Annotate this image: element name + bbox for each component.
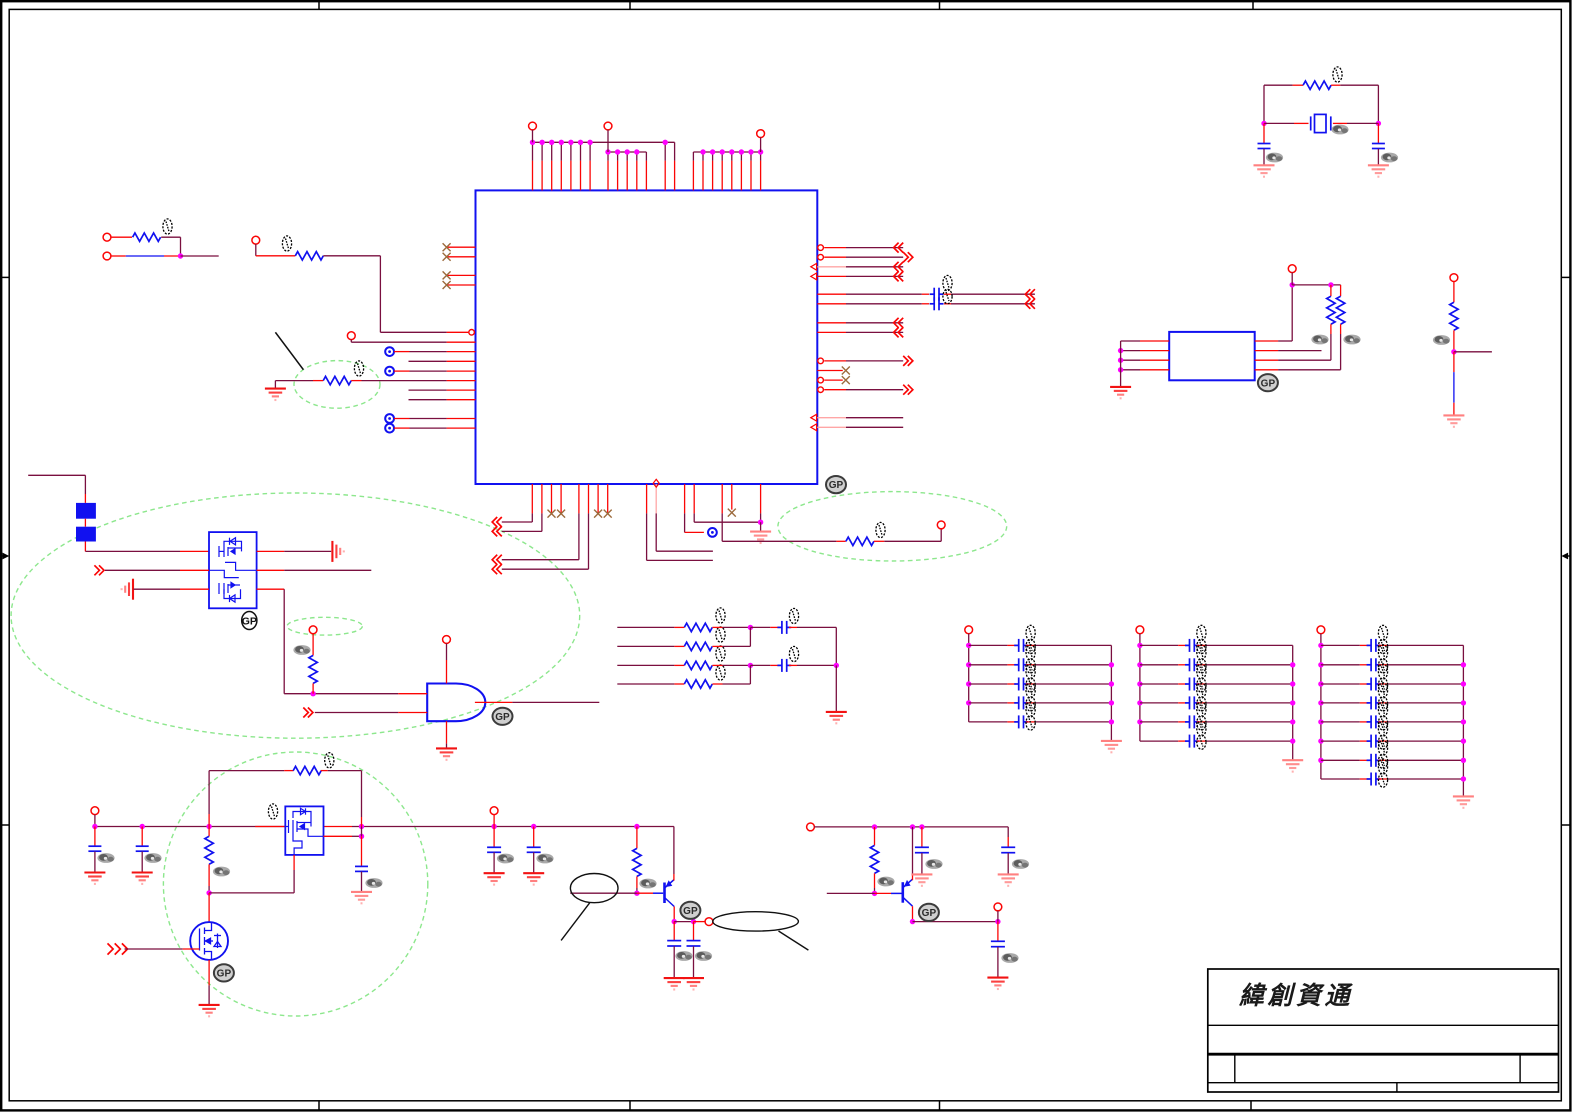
wire — [85, 550, 180, 552]
pin left — [447, 399, 476, 401]
wire — [1206, 721, 1293, 723]
wire — [636, 876, 638, 888]
title block — [1208, 969, 1559, 1092]
off-page connector — [894, 243, 904, 253]
junction — [919, 824, 924, 829]
junction — [1261, 121, 1266, 126]
wire — [589, 142, 591, 160]
junction — [995, 919, 1000, 924]
no-connect — [443, 281, 451, 289]
junction — [672, 919, 677, 924]
wire stub — [1378, 721, 1387, 723]
wire — [846, 256, 903, 258]
terminal — [103, 252, 111, 260]
value label Q2 — [268, 804, 277, 819]
wire rail right — [814, 826, 1008, 828]
wire — [84, 475, 86, 494]
wire stub — [1178, 664, 1187, 666]
junction — [910, 824, 915, 829]
wire — [1453, 330, 1455, 352]
wire — [588, 513, 590, 569]
wire — [493, 852, 495, 873]
ref label C — [1001, 953, 1018, 963]
wire gate — [183, 948, 200, 950]
wire — [760, 513, 762, 522]
ref label R13 — [877, 877, 894, 887]
wire — [723, 626, 751, 628]
wire — [846, 275, 903, 277]
pin arrow — [811, 424, 817, 431]
pin right — [817, 417, 846, 419]
junction — [1461, 681, 1466, 686]
MOSFET Q3 — [190, 922, 228, 960]
wire — [284, 550, 331, 552]
wire collector — [673, 907, 675, 922]
pin marker diamond — [653, 479, 659, 487]
ref label R5 — [293, 645, 310, 655]
wire — [1321, 759, 1360, 761]
wire power rail — [95, 826, 285, 828]
pin bottom — [646, 484, 648, 513]
pin top C3 — [712, 161, 714, 191]
wire stub — [533, 827, 535, 848]
wire — [361, 827, 363, 837]
junction — [625, 149, 630, 154]
wire — [105, 569, 180, 571]
junction — [758, 149, 763, 154]
inverted pin bubble — [818, 245, 824, 251]
wire stub — [693, 922, 695, 941]
wire — [255, 244, 257, 256]
wire stub — [1378, 644, 1387, 646]
junction rail — [140, 824, 145, 829]
wire — [617, 626, 674, 628]
pin right — [817, 322, 846, 324]
wire stub — [1378, 664, 1387, 666]
wire — [533, 852, 535, 873]
wire stub — [1178, 702, 1187, 704]
wire stub — [673, 874, 675, 881]
ground — [84, 873, 105, 884]
junction — [872, 891, 877, 896]
wire blue segment — [1453, 372, 1455, 403]
wire stub — [1026, 721, 1035, 723]
junction — [748, 149, 753, 154]
wire — [1321, 740, 1360, 742]
wire — [694, 521, 760, 523]
wire rail — [1120, 341, 1122, 387]
wire — [617, 152, 619, 161]
wire — [969, 702, 1008, 704]
capacitor — [991, 941, 1005, 946]
wire — [1387, 721, 1463, 723]
wire stub — [874, 540, 884, 542]
wire stub — [712, 626, 722, 628]
wire — [723, 683, 751, 685]
junction — [1109, 681, 1114, 686]
wire rail left — [1139, 634, 1141, 741]
wire — [256, 255, 295, 257]
highlight ellipse around pulldown resistor — [294, 361, 380, 409]
junction — [1328, 282, 1333, 287]
wire stub — [1007, 837, 1009, 847]
wire — [323, 255, 380, 257]
wire rail right — [1110, 645, 1112, 741]
wire stub — [84, 519, 86, 527]
wire stub — [1197, 664, 1206, 666]
wire stub — [1263, 123, 1265, 143]
wire — [352, 835, 362, 837]
wire — [1206, 740, 1293, 742]
wire — [1278, 369, 1341, 371]
wire — [208, 886, 210, 893]
junction — [634, 891, 639, 896]
no-connect — [728, 509, 736, 517]
wire — [846, 266, 903, 268]
wire — [1292, 284, 1340, 286]
wire — [328, 770, 362, 772]
resistor RN3 — [684, 661, 712, 669]
wire stub — [1360, 740, 1369, 742]
wire — [617, 664, 674, 666]
wire — [570, 892, 637, 894]
ground — [1110, 387, 1131, 398]
capacitor bank1-4 — [1014, 696, 1028, 709]
no-connect — [557, 510, 565, 518]
off-page connector — [903, 252, 913, 262]
wire stub — [1197, 683, 1206, 685]
capacitor series — [930, 297, 944, 310]
wire — [940, 529, 942, 542]
annotation leader — [779, 931, 809, 950]
value label bank3-1 — [1378, 625, 1387, 653]
wire — [1453, 352, 1455, 372]
resistor zero-ohm — [846, 537, 874, 545]
wire — [570, 142, 572, 160]
wire — [846, 426, 903, 428]
pin top C7 — [750, 161, 752, 191]
wire — [275, 380, 313, 382]
wire stub — [674, 683, 684, 685]
wire — [607, 152, 609, 161]
wire — [1263, 85, 1265, 123]
wire — [721, 152, 723, 161]
wire — [1453, 282, 1455, 303]
wire stub — [712, 645, 722, 647]
wire — [969, 664, 1008, 666]
value label RN2 — [716, 627, 725, 642]
junction — [1461, 719, 1466, 724]
pin right — [817, 266, 846, 268]
pin right inverted — [824, 389, 846, 391]
wire — [362, 380, 447, 382]
wire — [722, 540, 836, 542]
wire stub — [770, 664, 779, 666]
wire — [1121, 369, 1140, 371]
wire — [351, 341, 446, 343]
ref label C — [695, 951, 712, 961]
wire — [134, 588, 181, 590]
pin bottom — [684, 484, 686, 513]
capacitor bank2-6 — [1185, 735, 1199, 748]
wire — [532, 142, 534, 160]
value label bank3-2 — [1378, 645, 1387, 673]
highlight ellipse around FET switch and AND gate — [11, 493, 580, 738]
wire — [874, 873, 876, 888]
wire — [560, 142, 562, 160]
wire stub — [1360, 683, 1369, 685]
wire stub — [313, 380, 323, 382]
wire — [315, 712, 399, 714]
resistor R10 — [293, 766, 321, 774]
ground rotated — [332, 541, 343, 562]
wire stub — [1340, 324, 1342, 334]
wire — [750, 626, 770, 628]
wire — [674, 142, 676, 160]
wire — [111, 255, 126, 257]
wire — [846, 322, 903, 324]
junction — [615, 149, 620, 154]
off-page connector — [94, 565, 104, 575]
wire bus top-3 — [693, 151, 760, 153]
wire — [293, 870, 295, 893]
off-page connector — [903, 385, 913, 395]
wire — [835, 627, 837, 665]
pin top A7 — [589, 161, 591, 191]
capacitor bank3-1 — [1367, 639, 1381, 652]
pin left — [447, 360, 476, 362]
wire — [181, 255, 219, 257]
wire — [874, 888, 876, 893]
pin right U3 — [1255, 359, 1278, 361]
capacitor bank2-5 — [1185, 715, 1199, 728]
wire — [361, 771, 363, 817]
wire stub — [1007, 644, 1016, 646]
pin right — [817, 426, 846, 428]
wire stub — [208, 827, 210, 837]
wire stub — [493, 827, 495, 848]
wire — [274, 381, 276, 389]
pin bottom — [760, 484, 762, 513]
capacitor bank2-2 — [1185, 658, 1199, 671]
ground — [987, 978, 1008, 989]
wire stub — [409, 399, 447, 401]
junction — [758, 520, 763, 525]
no-connect — [443, 253, 451, 261]
junction — [1318, 758, 1323, 763]
ground — [132, 873, 153, 884]
wire — [1387, 664, 1463, 666]
capacitor — [915, 847, 929, 852]
wire — [283, 589, 285, 694]
pin top A5 — [570, 161, 572, 191]
off-page connector — [894, 271, 904, 281]
wire — [1387, 683, 1463, 685]
wire stub — [1026, 702, 1035, 704]
value label bank3-6 — [1378, 721, 1387, 749]
wire — [636, 152, 638, 161]
junction — [634, 149, 639, 154]
junction — [1461, 700, 1466, 705]
junction — [1137, 681, 1142, 686]
capacitor bulk — [136, 846, 149, 851]
wire stub — [944, 293, 951, 295]
wire stub — [394, 427, 410, 429]
capacitor load — [1258, 144, 1271, 149]
wire — [969, 721, 1008, 723]
wire — [1206, 664, 1293, 666]
capacitor bank3-3 — [1367, 678, 1381, 691]
junction — [691, 919, 696, 924]
wire — [846, 389, 903, 391]
Q2 internals — [285, 808, 323, 855]
connector pad J2 — [76, 527, 96, 542]
wire — [502, 521, 533, 523]
ground — [826, 712, 847, 723]
GP marker Q3 — [214, 964, 234, 981]
wire — [693, 513, 695, 522]
no-connect — [604, 510, 612, 518]
junction rail — [92, 824, 97, 829]
wire — [684, 513, 686, 532]
pin Q2 out — [324, 826, 353, 828]
wire stub — [312, 683, 314, 693]
ground AGND — [1443, 415, 1464, 426]
ref label C — [365, 878, 382, 888]
junction — [872, 824, 877, 829]
ref label C — [1381, 153, 1398, 163]
wire stub — [1007, 721, 1016, 723]
wire — [749, 627, 751, 646]
wire bus top-2 — [608, 151, 646, 153]
junction — [1290, 719, 1295, 724]
wire — [1387, 778, 1463, 780]
wire — [1264, 84, 1293, 86]
terminal — [937, 521, 945, 529]
junction — [1461, 776, 1466, 781]
wire stub — [1178, 740, 1187, 742]
inverted pin bubble — [818, 254, 824, 260]
wire — [446, 744, 448, 749]
junction — [578, 140, 583, 145]
wire — [1278, 359, 1331, 361]
junction — [663, 140, 668, 145]
wire stub — [712, 683, 722, 685]
off-page connector — [492, 526, 502, 536]
terminal bank3 — [1317, 626, 1325, 634]
junction — [1451, 349, 1456, 354]
svg-text:GP: GP — [242, 616, 257, 628]
wire — [750, 664, 770, 666]
highlight ellipse small around resistor — [287, 617, 362, 635]
pin right — [817, 331, 846, 333]
pin left — [447, 380, 476, 382]
wire — [760, 138, 762, 153]
wire — [1387, 740, 1463, 742]
wire stub — [770, 626, 779, 628]
wire — [541, 513, 543, 531]
ref label C — [536, 854, 553, 864]
pin bottom salmon — [655, 484, 657, 513]
off-page connector — [1025, 289, 1035, 299]
ground — [436, 748, 457, 759]
annotation balloon — [713, 912, 799, 931]
pin top B4 — [636, 161, 638, 191]
wire — [646, 513, 648, 560]
wire — [379, 256, 381, 332]
pin left U3 — [1140, 369, 1169, 371]
capacitor CN2 — [777, 659, 791, 672]
wire — [1140, 702, 1178, 704]
wire stub — [922, 293, 929, 295]
value label bank2-1 — [1197, 625, 1206, 653]
value label bank3-4 — [1378, 683, 1387, 711]
junction — [729, 149, 734, 154]
wire rail left — [968, 634, 970, 722]
wire — [1206, 644, 1293, 646]
dual FET block Q1 — [209, 532, 257, 608]
pin bottom — [607, 484, 609, 513]
wire — [125, 948, 183, 950]
wire — [512, 701, 599, 703]
pin — [446, 660, 448, 684]
wire — [951, 303, 1035, 305]
wire — [1035, 683, 1112, 685]
junction — [1118, 358, 1123, 363]
capacitor — [687, 941, 701, 946]
junction — [539, 140, 544, 145]
wire stub — [789, 664, 797, 666]
terminal — [490, 807, 498, 815]
junction — [748, 625, 753, 630]
junction — [1290, 700, 1295, 705]
junction — [1461, 662, 1466, 667]
resistor RN4 — [684, 680, 712, 688]
wire — [1330, 334, 1332, 360]
pin top B7 — [674, 161, 676, 191]
wire — [94, 815, 96, 827]
wire stub — [789, 626, 797, 628]
pin arrow — [811, 263, 817, 270]
wire stub — [1294, 122, 1309, 124]
ref label R8 — [1343, 335, 1360, 345]
capacitor series — [930, 288, 944, 301]
junction — [1376, 121, 1381, 126]
wire — [1321, 683, 1360, 685]
wire blue segment — [126, 255, 164, 257]
wire stub — [1197, 740, 1206, 742]
pin top A2 — [541, 161, 543, 191]
capacitor bank3-6 — [1367, 735, 1381, 748]
value label caps — [943, 275, 952, 303]
wire — [1291, 285, 1293, 341]
capacitor load — [1372, 144, 1385, 149]
svg-text:GP: GP — [217, 969, 232, 980]
pin bottom — [588, 484, 590, 513]
wire — [1340, 334, 1342, 370]
wire — [1321, 702, 1360, 704]
junction — [1290, 738, 1295, 743]
ground — [664, 978, 685, 989]
capacitor bank1-5 — [1014, 715, 1028, 728]
wire — [209, 892, 294, 894]
junction — [359, 834, 364, 839]
annotation line — [275, 332, 303, 369]
test point — [385, 367, 394, 376]
value label R4 — [1333, 67, 1342, 82]
GP marker Q4 — [680, 902, 700, 919]
wire — [617, 683, 674, 685]
